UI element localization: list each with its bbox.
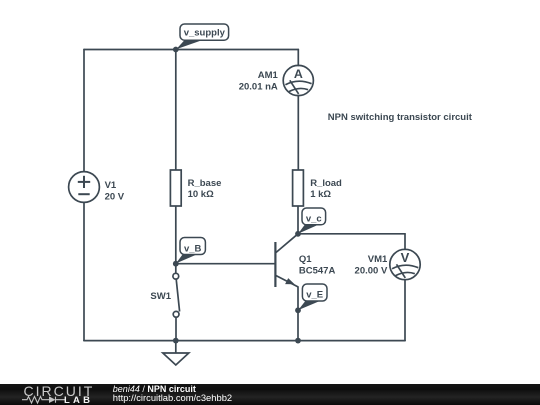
- junction dot v_B node: [173, 261, 179, 267]
- wire voltmeter top drop: [404, 234, 406, 250]
- wire left vertical upper: [83, 50, 85, 172]
- wire base horizontal: [176, 263, 276, 265]
- svg-text:1 kΩ: 1 kΩ: [310, 189, 331, 200]
- node v_B flag: [176, 238, 205, 264]
- footer bar: [0, 384, 540, 405]
- wire R_base bottom to v_B node: [175, 206, 177, 273]
- svg-text:20.00 V: 20.00 V: [355, 266, 388, 277]
- node v_E flag: [298, 284, 327, 310]
- junction dot ground node: [173, 338, 179, 344]
- svg-text:NPN switching transistor circu: NPN switching transistor circuit: [328, 112, 473, 123]
- svg-text:A: A: [294, 67, 303, 81]
- Q1 emitter arrow: [285, 278, 295, 284]
- resistor R_load: [293, 170, 304, 206]
- junction dot v_E node: [295, 307, 301, 313]
- wire bottom horizontal: [84, 340, 405, 342]
- switch SW1: [173, 273, 180, 317]
- svg-text:10 kΩ: 10 kΩ: [188, 189, 214, 200]
- svg-text:VM1: VM1: [368, 254, 388, 265]
- svg-text:20 V: 20 V: [105, 191, 125, 202]
- svg-text:v_B: v_B: [184, 243, 202, 254]
- node v_supply flag: [176, 24, 228, 49]
- ground: [163, 341, 189, 365]
- junction dot v_c node: [295, 231, 301, 237]
- wire v_c node to voltmeter: [298, 233, 405, 235]
- resistor R_base: [170, 170, 181, 206]
- svg-text:v_c: v_c: [306, 214, 322, 225]
- junction dot emitter-bottom node: [295, 338, 301, 344]
- VM1 value labels: [355, 254, 388, 277]
- R_base value labels: [188, 178, 222, 200]
- wire voltmeter bottom drop: [404, 280, 406, 341]
- ammeter AM1: [283, 65, 313, 95]
- transistor Q1: [275, 234, 298, 287]
- CircuitLab logo wordmark: [24, 384, 95, 398]
- wire top horizontal: [84, 49, 298, 51]
- V1 value labels: [105, 180, 125, 202]
- svg-text:v_E: v_E: [306, 290, 323, 301]
- footer url line: [113, 393, 232, 402]
- svg-text:SW1: SW1: [150, 291, 171, 302]
- wire switch bottom to bottom wire: [175, 317, 177, 340]
- wire R_load bottom to v_c node: [297, 206, 299, 234]
- wire right vertical to ammeter: [297, 50, 299, 66]
- wire left vertical lower: [83, 202, 85, 340]
- AM1 value labels: [239, 70, 279, 93]
- R_load value labels: [310, 178, 342, 200]
- svg-text:BC547A: BC547A: [299, 266, 336, 277]
- node v_c flag: [298, 208, 325, 234]
- logo resistor+diode glyph: [21, 395, 67, 405]
- wire emitter vertical: [297, 287, 299, 341]
- svg-text:AM1: AM1: [258, 70, 279, 81]
- svg-text:20.01 nA: 20.01 nA: [239, 82, 278, 93]
- svg-text:R_base: R_base: [188, 178, 222, 189]
- svg-text:V: V: [401, 250, 410, 265]
- footer credit line: [113, 385, 196, 394]
- voltage source V1: [69, 172, 100, 203]
- voltmeter VM1: [390, 249, 420, 279]
- wire middle vertical to R_base: [175, 50, 177, 171]
- wire ammeter to R_load: [297, 96, 299, 171]
- junction dot v_supply node: [173, 47, 179, 53]
- svg-text:R_load: R_load: [310, 178, 342, 189]
- svg-text:Q1: Q1: [299, 254, 312, 265]
- svg-text:V1: V1: [105, 180, 117, 191]
- Q1 value labels: [299, 254, 336, 277]
- svg-text:v_supply: v_supply: [184, 28, 226, 39]
